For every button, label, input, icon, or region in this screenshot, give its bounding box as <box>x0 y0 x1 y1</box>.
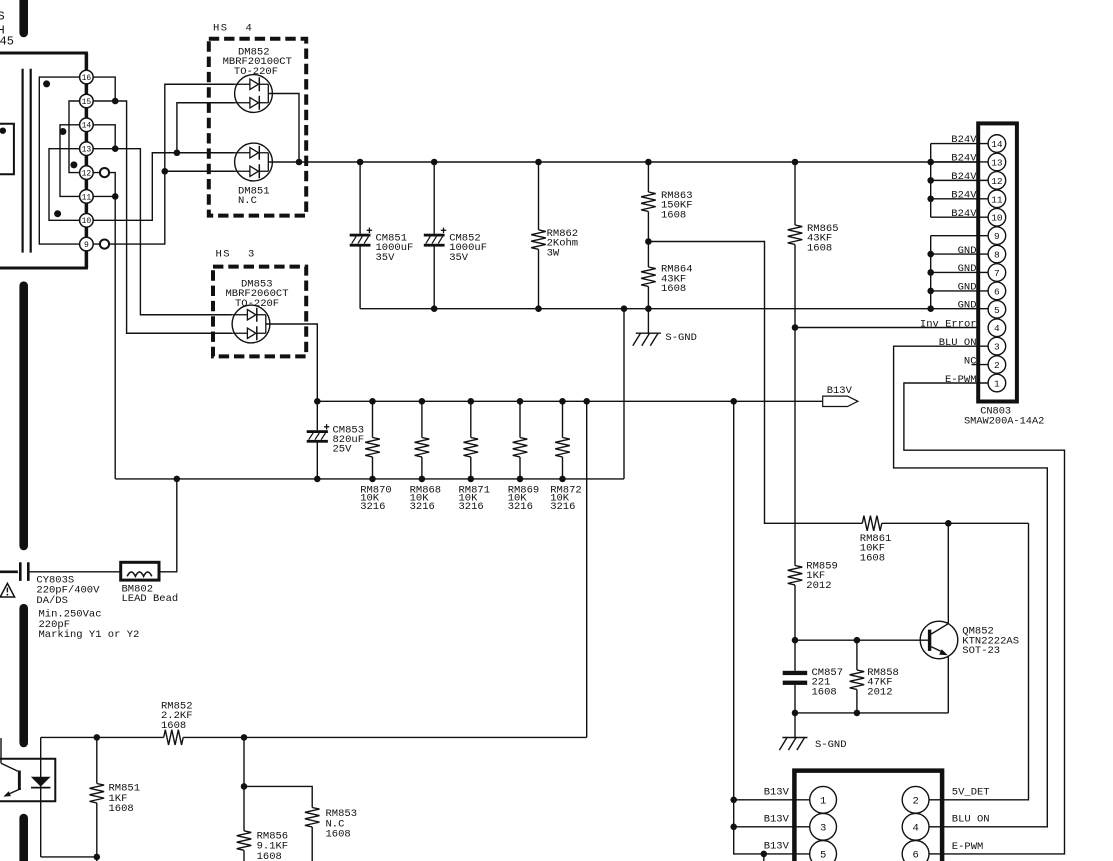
capacitor CM857 221 1608 <box>783 640 843 713</box>
B24V bus wire <box>296 159 988 166</box>
svg-text:1608: 1608 <box>661 209 686 221</box>
capacitor CM853 820uF 25V <box>307 401 364 479</box>
resistor RM865 43KF 1608 <box>788 162 839 328</box>
bottom bus wire (pins 11/12 to S-GND link) <box>115 476 624 483</box>
svg-text:E-PWM: E-PWM <box>952 841 984 853</box>
resistor RM863 150KF 1608 <box>641 162 692 242</box>
probe circle at pin 12 wire <box>100 168 109 177</box>
svg-text:SMAW200A-14A2: SMAW200A-14A2 <box>964 415 1044 427</box>
resistor RM864 43KF 1608 <box>641 242 692 309</box>
svg-text:4: 4 <box>246 23 252 35</box>
svg-text:1608: 1608 <box>812 686 837 698</box>
dual diode DM852 MBRF20100CT <box>223 47 292 113</box>
svg-text:B13V: B13V <box>764 787 790 799</box>
ferrite bead BM802 LEAD Bead <box>121 562 179 605</box>
svg-text:35V: 35V <box>449 252 469 264</box>
svg-text:B24V: B24V <box>951 153 977 165</box>
svg-text:3216: 3216 <box>410 501 435 513</box>
svg-text:13: 13 <box>82 146 92 155</box>
resistor RM861 10KF 1608 <box>860 516 1029 565</box>
svg-text:1: 1 <box>994 379 1000 390</box>
svg-text:B24V: B24V <box>951 171 977 183</box>
transformer outline box <box>0 53 86 268</box>
svg-text:GND: GND <box>958 300 977 312</box>
resistor RM852 2.2KF 1608 <box>161 701 193 746</box>
svg-text:9: 9 <box>84 241 89 250</box>
heatsink box HS 4 <box>209 23 306 216</box>
svg-text:5V_DET: 5V_DET <box>952 787 990 799</box>
wire pin12 to pin11 junction <box>93 173 115 197</box>
svg-text:1608: 1608 <box>860 552 885 564</box>
svg-text:LEAD Bead: LEAD Bead <box>122 593 179 605</box>
wire DM853 output down to B13V bus <box>266 324 318 401</box>
svg-text:S-GND: S-GND <box>665 332 697 344</box>
resistor RM858 47KF 2012 <box>850 640 899 713</box>
board boundary bar mid-left <box>19 286 28 546</box>
svg-text:2012: 2012 <box>867 686 892 698</box>
wire B24V pins 14-10 group <box>927 144 988 218</box>
resistor RM851 1KF 1608 <box>90 737 141 857</box>
svg-text:SOT-23: SOT-23 <box>962 645 1000 657</box>
svg-text:TO-220F: TO-220F <box>234 66 278 78</box>
wire BLU_ON from pin 3 <box>894 346 1048 827</box>
wire pin9 to DM852 upper anode and DM851 lower anode <box>93 84 234 244</box>
wire E-PWM from pin 1 <box>904 383 1065 854</box>
heatsink box HS 3 <box>213 249 306 357</box>
winding loop pins 15-12 <box>69 101 80 173</box>
board boundary bar lower-left <box>19 608 28 743</box>
svg-text:8: 8 <box>994 250 1000 261</box>
wire divider tap RM863/RM864 to RM861 <box>645 238 862 523</box>
svg-text:1: 1 <box>820 795 826 807</box>
svg-text:11: 11 <box>991 194 1003 205</box>
resistor RM872 10K 3216 <box>550 401 582 513</box>
svg-text:1608: 1608 <box>326 829 351 841</box>
board boundary bar bottom-left <box>19 818 28 861</box>
svg-text:TO-220F: TO-220F <box>235 298 279 310</box>
winding loop pins 16-9 <box>39 77 79 244</box>
net flag B13V <box>823 385 858 406</box>
winding polarity dots <box>43 80 77 217</box>
svg-text:12: 12 <box>991 176 1003 187</box>
CN802 wire stubs pins right <box>929 800 942 854</box>
capacitor CY803S 220pF/400V <box>0 562 139 641</box>
safety warning triangle <box>0 583 14 597</box>
resistor RM856 9.1KF 1608 <box>237 786 288 861</box>
CN802 pin circles <box>810 786 929 861</box>
transformer core lines <box>23 69 31 253</box>
svg-text:13: 13 <box>991 157 1003 168</box>
wire pin11 junction down to bottom bus <box>93 193 118 479</box>
wire pin10 to DM851 upper anode and DM852 lower anode <box>93 103 234 221</box>
probe circle at pin 9 wire <box>100 240 109 249</box>
resistor RM868 10K 3216 <box>410 401 442 513</box>
svg-text:S: S <box>0 10 5 24</box>
svg-text:N.C: N.C <box>238 195 257 207</box>
wire bottom bus down to bead BM802 <box>159 479 177 572</box>
svg-text:B24V: B24V <box>951 134 977 146</box>
svg-text:E-PWM: E-PWM <box>945 374 977 386</box>
wire pin16 to pin15 junction <box>93 77 115 101</box>
svg-text:Marking Y1 or Y2: Marking Y1 or Y2 <box>39 629 140 641</box>
svg-text:HS: HS <box>216 249 232 261</box>
svg-text:3: 3 <box>994 342 1000 353</box>
wire branch to RM856 and RM853 <box>241 737 313 807</box>
CN803 pin labels <box>920 134 977 386</box>
wire S-GND bus down to resistor-bottom bus <box>623 309 625 479</box>
ground S-GND at QM852 <box>779 713 846 751</box>
svg-text:3216: 3216 <box>459 501 484 513</box>
wire 5V_DET from RM861/collector to pin 2 of CN802 <box>929 523 1029 800</box>
capacitor CM851 1000uF 35V <box>350 162 414 309</box>
transformer secondary spine <box>85 53 89 268</box>
svg-text:1608: 1608 <box>257 851 282 861</box>
svg-text:25V: 25V <box>333 444 353 456</box>
wire pin13 to DM853 upper anode <box>93 145 232 314</box>
resistor RM859 1KF 2012 <box>788 561 838 641</box>
transistor QM852 KTN2222AS SOT-23 <box>920 523 1019 713</box>
resistor RM870 10K 3216 <box>360 401 392 513</box>
transformer primary winding (cut off) <box>0 124 14 175</box>
svg-text:4: 4 <box>994 323 1000 334</box>
svg-text:5: 5 <box>994 305 1000 316</box>
transformer pin circles 16-9 <box>80 70 94 251</box>
wire optocoupler to RM852 to B13V riser <box>41 401 587 740</box>
resistor RM871 10K 3216 <box>459 401 491 513</box>
svg-text:6: 6 <box>994 286 1000 297</box>
CN802 labels <box>764 787 990 853</box>
wire QM852 emitter bus <box>792 710 949 717</box>
svg-text:B13V: B13V <box>764 841 790 853</box>
connector CN802 (cut off at bottom) <box>794 771 942 861</box>
svg-text:DA/DS: DA/DS <box>36 595 68 607</box>
svg-text:B24V: B24V <box>951 190 977 202</box>
svg-text:Inv_Error: Inv_Error <box>920 318 977 330</box>
svg-text:1608: 1608 <box>807 242 832 254</box>
svg-text:3: 3 <box>820 822 826 834</box>
svg-text:2: 2 <box>994 360 1000 371</box>
svg-text:1608: 1608 <box>109 803 134 815</box>
wire optocoupler cathode bottom <box>41 854 100 861</box>
svg-text:1608: 1608 <box>661 283 686 295</box>
board boundary bar top-left <box>19 0 28 33</box>
svg-text:NC: NC <box>964 355 977 367</box>
svg-text:2: 2 <box>912 795 918 807</box>
svg-text:3216: 3216 <box>360 501 385 513</box>
wire pin14 to pin13 junction <box>93 125 115 149</box>
dual diode DM851 N.C <box>235 143 273 207</box>
wire QM852 base node <box>792 637 929 644</box>
optocoupler PM801 (cut off) <box>0 737 55 857</box>
resistor RM853 N.C 1608 <box>305 808 357 861</box>
winding loop pins 14-11 <box>60 125 80 197</box>
wire DM851 output <box>268 161 299 163</box>
svg-text:3216: 3216 <box>550 501 575 513</box>
svg-text:BLU_ON: BLU_ON <box>939 337 977 349</box>
svg-text:B24V: B24V <box>951 208 977 220</box>
svg-text:3216: 3216 <box>508 501 533 513</box>
svg-text:5: 5 <box>820 849 826 861</box>
svg-text:35V: 35V <box>376 252 396 264</box>
resistor RM862 2Kohm 3W <box>531 162 578 309</box>
svg-text:7: 7 <box>994 268 1000 279</box>
svg-text:2012: 2012 <box>806 580 831 592</box>
wire GND pins 9-5 group <box>927 236 988 309</box>
svg-text:1608: 1608 <box>161 720 186 732</box>
wire pin15 to DM853 lower anode <box>93 98 232 334</box>
svg-text:B13V: B13V <box>827 385 853 397</box>
svg-text:B13V: B13V <box>764 814 790 826</box>
B13V bus wire <box>314 398 823 405</box>
svg-text:4: 4 <box>912 822 918 834</box>
svg-text:HS: HS <box>213 23 229 35</box>
svg-text:10: 10 <box>82 217 92 226</box>
svg-text:GND: GND <box>958 245 977 257</box>
svg-text:45: 45 <box>0 35 14 49</box>
svg-text:14: 14 <box>82 122 92 131</box>
svg-text:10: 10 <box>991 213 1003 224</box>
wire DM852 output down to B24V bus <box>268 94 299 163</box>
svg-text:3: 3 <box>248 249 254 261</box>
wire B13V feed to CN802 pins 1/3/5 <box>730 401 809 861</box>
svg-text:15: 15 <box>82 98 92 107</box>
svg-text:14: 14 <box>991 139 1003 150</box>
dual diode DM853 MBRF2060CT <box>226 279 289 343</box>
svg-text:GND: GND <box>958 282 977 294</box>
svg-text:11: 11 <box>82 193 92 202</box>
svg-text:12: 12 <box>82 170 92 179</box>
svg-text:9: 9 <box>994 231 1000 242</box>
S-GND bus wire <box>360 305 934 312</box>
ground S-GND at divider <box>633 309 697 346</box>
resistor RM869 10K 3216 <box>508 401 540 513</box>
capacitor CM852 1000uF 35V <box>424 162 487 309</box>
svg-text:BLU ON: BLU ON <box>952 814 990 826</box>
wire Inv_Error net (CN803 pin4, RM865, RM859) <box>792 324 988 565</box>
CN803 pin circles <box>988 135 1006 392</box>
wire NC stub pin 2 <box>972 364 989 366</box>
svg-text:16: 16 <box>82 74 92 83</box>
svg-text:3W: 3W <box>547 247 560 259</box>
winding loop pins 13-10 <box>49 149 80 221</box>
svg-text:6: 6 <box>912 849 918 861</box>
cut-off text S H 45 top-left <box>0 10 14 49</box>
svg-text:S-GND: S-GND <box>815 739 847 751</box>
connector CN803 SMAW200A-14A2 <box>964 123 1044 427</box>
svg-text:GND: GND <box>958 263 977 275</box>
